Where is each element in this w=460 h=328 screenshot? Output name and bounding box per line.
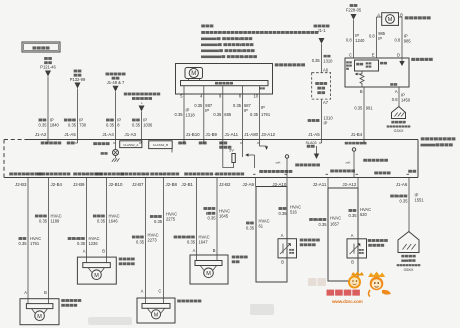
CLASS2_A box xyxy=(120,141,142,148)
label CKT 985a xyxy=(369,31,386,41)
svg-text:J2-B1: J2-B1 xyxy=(182,182,194,187)
svg-text:C: C xyxy=(158,289,161,294)
rear linear power module xyxy=(345,53,433,88)
svg-text:1551: 1551 xyxy=(415,197,425,202)
right heater thermistor xyxy=(347,233,388,281)
svg-text:0.8: 0.8 xyxy=(346,38,352,43)
svg-text:J1-B10: J1-B10 xyxy=(186,132,200,137)
wire to IP electrical center A6 xyxy=(321,44,323,73)
svg-text:0.35: 0.35 xyxy=(175,112,184,117)
wire pin A to ground xyxy=(398,87,400,107)
label CKT 1645 xyxy=(203,207,230,221)
fuse F228-05 xyxy=(346,4,362,20)
svg-text:516: 516 xyxy=(290,209,298,214)
svg-text:J1-B9: J1-B9 xyxy=(206,132,218,137)
svg-text:10: 10 xyxy=(253,94,258,99)
svg-text:CLASS2_B: CLASS2_B xyxy=(153,143,168,147)
svg-text:0.35: 0.35 xyxy=(132,122,141,127)
svg-text:P121-46: P121-46 xyxy=(40,64,56,69)
internal terminal right xyxy=(345,148,355,178)
wire actuator pin10 to J3-A12 xyxy=(259,86,261,143)
label CKT 1840 xyxy=(39,118,60,128)
svg-text:A: A xyxy=(83,249,86,254)
svg-text:1189: 1189 xyxy=(51,218,61,223)
label CKT 520 xyxy=(349,207,372,218)
label CKT 1646 xyxy=(93,214,120,224)
label CKT 2273 xyxy=(132,233,159,245)
svg-text:2275: 2275 xyxy=(166,216,176,221)
svg-text:A: A xyxy=(281,233,284,238)
mode actuator assembly box xyxy=(176,63,306,94)
wire J2-B9 pass motor feed xyxy=(86,178,88,263)
svg-text:M: M xyxy=(206,271,211,277)
svg-text:0.8: 0.8 xyxy=(392,97,398,102)
svg-text:J1-48 & 7: J1-48 & 7 xyxy=(107,80,125,85)
svg-text:J2-A12: J2-A12 xyxy=(342,182,356,187)
HVAC control module box xyxy=(4,137,455,177)
svg-text:J1-A11: J1-A11 xyxy=(225,132,239,137)
svg-text:1318: 1318 xyxy=(186,112,196,117)
wire J2-A12 xyxy=(357,178,359,240)
wire actuator pin8 to J1-A80 xyxy=(242,86,244,143)
svg-text:A7: A7 xyxy=(323,100,329,105)
label CKT 516 xyxy=(279,205,302,216)
svg-text:J2-B7: J2-B7 xyxy=(132,182,144,187)
label CKT 2275 xyxy=(150,212,177,224)
passenger temp motor assembly xyxy=(77,249,134,285)
wire J2-A11 xyxy=(327,178,329,189)
svg-text:0.35: 0.35 xyxy=(354,106,363,111)
svg-text:B: B xyxy=(102,249,105,254)
svg-text:CLASS2_A: CLASS2_A xyxy=(123,143,138,147)
svg-text:A: A xyxy=(24,290,27,295)
wire J1-A3 class2 xyxy=(141,112,143,144)
svg-text:IP: IP xyxy=(205,108,209,113)
hot-at-all-times header box xyxy=(22,42,60,52)
wire actuator pin4 to J1-B9 xyxy=(203,86,205,143)
svg-text:1036: 1036 xyxy=(143,122,153,127)
internal labels bottom row xyxy=(9,159,416,176)
actuator pins 5 4 9 8 10 xyxy=(180,94,258,99)
svg-text:1645: 1645 xyxy=(219,213,229,218)
top pin labels xyxy=(35,132,363,137)
svg-text:xxK: xxK xyxy=(275,161,280,165)
svg-text:C: C xyxy=(349,53,352,58)
svg-text:M: M xyxy=(388,17,393,23)
svg-text:0.35: 0.35 xyxy=(312,58,321,63)
wire pin B to J1-B4 xyxy=(363,87,365,143)
internal terminal left xyxy=(275,155,288,178)
svg-text:A: A xyxy=(193,248,196,253)
bottom pin labels xyxy=(15,182,408,187)
IP electrical center dashed box xyxy=(312,73,331,99)
svg-text:A: A xyxy=(351,233,354,238)
internal labels top row xyxy=(41,141,110,145)
svg-text:0.35: 0.35 xyxy=(213,112,222,117)
svg-text:M: M xyxy=(94,273,99,279)
svg-text:A6: A6 xyxy=(323,68,329,73)
svg-text:5V: 5V xyxy=(229,149,234,153)
svg-text:J2-B8: J2-B8 xyxy=(166,182,178,187)
svg-text:J1-A5: J1-A5 xyxy=(64,132,76,137)
wire fuse to linear module C xyxy=(353,20,355,58)
internal lamp symbol xyxy=(101,143,120,162)
svg-text:0.35: 0.35 xyxy=(208,216,217,221)
svg-text:1310: 1310 xyxy=(323,58,333,63)
fuse F2 P132-99 xyxy=(70,70,86,89)
wire actuator pin9 to J1-A11 xyxy=(222,86,224,143)
label CKT 1318 xyxy=(175,108,196,118)
svg-text:2273: 2273 xyxy=(148,237,158,242)
svg-text:J2-B3: J2-B3 xyxy=(15,182,27,187)
wire J1-A4 dimming xyxy=(115,92,117,143)
bottom pin ticks xyxy=(26,173,410,175)
linear module internals xyxy=(346,60,397,86)
svg-text:J1-A3: J1-A3 xyxy=(125,132,137,137)
wire actuator pin5 to J1-B10 xyxy=(183,86,185,143)
svg-text:0.35: 0.35 xyxy=(136,239,145,244)
svg-text:61: 61 xyxy=(259,223,264,228)
label CKT 987 xyxy=(194,103,213,113)
svg-text:A: A xyxy=(141,289,144,294)
svg-text:D: D xyxy=(397,53,400,58)
label CKT 687 xyxy=(233,103,252,113)
label CKT 1189 xyxy=(35,214,62,224)
note block wire color changes xyxy=(201,24,318,58)
svg-text:985: 985 xyxy=(404,38,412,43)
svg-text:0.35: 0.35 xyxy=(233,103,242,108)
label CKT 1647 xyxy=(174,235,210,245)
svg-text:SLA03: SLA03 xyxy=(306,141,317,145)
internal resistor xyxy=(355,71,364,87)
mode motor assembly xyxy=(137,289,201,324)
wire J2-B2 vent motor return xyxy=(216,178,218,261)
label CKT 1657 xyxy=(309,216,341,227)
rear blower motor xyxy=(377,13,431,26)
svg-text:www.dzsc.com: www.dzsc.com xyxy=(331,299,363,304)
ground G3XX xyxy=(387,107,411,134)
label CKT 1310b xyxy=(308,116,334,126)
watermark mascot monkey xyxy=(368,272,391,297)
svg-text:B: B xyxy=(351,260,354,265)
faint smudges xyxy=(88,304,274,325)
left heater housing box xyxy=(256,187,287,283)
svg-text:1647: 1647 xyxy=(199,239,209,244)
svg-text:M: M xyxy=(154,313,158,319)
internal ground arrow pin D xyxy=(399,58,404,66)
svg-text:0.35: 0.35 xyxy=(319,222,328,227)
actuator resistor strip xyxy=(181,81,269,90)
svg-text:J2-B2: J2-B2 xyxy=(219,182,231,187)
wire J2-B4 driver motor return xyxy=(48,178,50,304)
svg-text:0.35: 0.35 xyxy=(250,112,259,117)
svg-text:J1-A2: J1-A2 xyxy=(35,132,47,137)
svg-text:M: M xyxy=(37,314,42,320)
internal SLA03 label xyxy=(306,141,317,148)
svg-text:xxK: xxK xyxy=(345,161,350,165)
svg-text:IP: IP xyxy=(324,120,328,125)
svg-text:1791: 1791 xyxy=(261,112,271,117)
svg-text:E: E xyxy=(372,53,375,58)
svg-text:0.35: 0.35 xyxy=(349,213,358,218)
internal rear blower label xyxy=(345,142,348,145)
svg-text:0.35: 0.35 xyxy=(97,218,106,223)
svg-text:0.35: 0.35 xyxy=(400,198,409,203)
wire J2-B1 vent motor feed xyxy=(196,178,198,261)
svg-text:J3-A12: J3-A12 xyxy=(261,132,275,137)
svg-text:HVAC: HVAC xyxy=(330,216,341,221)
wire blower B to pin D xyxy=(401,17,403,58)
svg-text:J1-1: J1-1 xyxy=(318,28,327,33)
wire J2-B7 mode motor feed xyxy=(145,178,147,304)
wire J2-A9 xyxy=(255,178,257,187)
svg-text:0.35: 0.35 xyxy=(68,122,77,127)
ground G5XX connector xyxy=(397,232,421,272)
svg-text:0.8: 0.8 xyxy=(394,38,400,43)
vent motor assembly xyxy=(190,248,248,284)
internal 5V pullup xyxy=(223,143,235,168)
svg-text:1240: 1240 xyxy=(355,38,365,43)
internal mode labels xyxy=(178,141,231,148)
svg-text:1791: 1791 xyxy=(30,241,40,246)
label CKT 61 xyxy=(246,219,270,231)
svg-text:IP: IP xyxy=(378,36,382,41)
svg-text:J1-A80: J1-A80 xyxy=(244,132,258,137)
wire J2-B8 mode motor return xyxy=(163,178,165,304)
wire J2-A10 xyxy=(286,178,288,239)
CLASS2_B box xyxy=(149,141,173,153)
internal down arrow left xyxy=(314,146,319,159)
svg-text:0.35: 0.35 xyxy=(279,211,288,216)
label CKT 1791 xyxy=(19,236,42,246)
wire J1-A6 ground xyxy=(408,178,410,233)
fuse F3 instrument panel lamps xyxy=(106,73,126,92)
right heater housing box xyxy=(328,188,358,281)
svg-text:M: M xyxy=(191,71,196,77)
fuse F1 P121-46 xyxy=(40,57,56,76)
svg-text:1450: 1450 xyxy=(401,97,411,102)
svg-text:B: B xyxy=(44,290,47,295)
label CKT 1236 xyxy=(68,236,100,246)
label CKT 1551 xyxy=(390,193,424,204)
svg-text:0.35: 0.35 xyxy=(106,122,115,127)
svg-text:0.35: 0.35 xyxy=(19,241,28,246)
label CKT 1310a xyxy=(312,55,333,63)
actuator motor M xyxy=(185,68,203,81)
watermark ghost text xyxy=(308,278,326,286)
label CKT 991 xyxy=(354,106,373,111)
svg-text:0.35: 0.35 xyxy=(39,122,48,127)
label CKT 1036 xyxy=(132,118,153,128)
svg-text:0.35: 0.35 xyxy=(246,225,255,230)
svg-text:1236: 1236 xyxy=(89,241,99,246)
driver temp motor assembly xyxy=(20,290,81,325)
svg-text:P132-99: P132-99 xyxy=(70,77,86,82)
rear side frame J1-1 xyxy=(314,25,330,44)
label CKT 730 xyxy=(64,118,87,128)
wire J2-B10 pass motor return xyxy=(106,178,108,263)
watermark mascot coin xyxy=(348,271,364,288)
watermark text xyxy=(327,290,335,296)
label CKT 1791a xyxy=(250,105,271,117)
svg-text:1840: 1840 xyxy=(50,122,60,127)
svg-text:0.35: 0.35 xyxy=(154,219,163,224)
label CKT 8 xyxy=(106,118,121,128)
internal hook J3-A12 xyxy=(260,143,269,150)
svg-text:B: B xyxy=(360,89,363,94)
svg-text:J2-B4: J2-B4 xyxy=(51,182,63,187)
label CKT 685 xyxy=(213,112,232,117)
svg-text:730: 730 xyxy=(79,122,87,127)
svg-text:G3XX: G3XX xyxy=(394,129,404,133)
wire J1-A2 battery feed xyxy=(47,77,49,144)
svg-text:0.8: 0.8 xyxy=(369,34,375,39)
svg-text:IP: IP xyxy=(244,108,248,113)
serial data link connector xyxy=(124,93,160,112)
svg-text:B: B xyxy=(213,248,216,253)
wire blower A to pin E xyxy=(376,17,378,58)
svg-text:520: 520 xyxy=(360,212,368,217)
svg-text:1657: 1657 xyxy=(330,222,340,227)
svg-text:1646: 1646 xyxy=(109,218,119,223)
svg-text:F228-05: F228-05 xyxy=(346,8,362,13)
top pin ticks xyxy=(46,142,365,144)
wire A7 to J1-A5b xyxy=(321,99,323,143)
svg-text:0.35: 0.35 xyxy=(39,218,48,223)
svg-text:J1-A4: J1-A4 xyxy=(102,132,114,137)
svg-text:G5XX: G5XX xyxy=(404,268,414,272)
svg-text:B: B xyxy=(281,260,284,265)
svg-text:0.35: 0.35 xyxy=(194,103,203,108)
svg-text:J1-B4: J1-B4 xyxy=(351,132,363,137)
svg-text:0.35: 0.35 xyxy=(187,239,196,244)
label CKT 1240 xyxy=(346,33,365,43)
svg-text:J1-A6: J1-A6 xyxy=(396,182,408,187)
svg-text:0.35: 0.35 xyxy=(77,241,86,246)
internal hook J1-A80 xyxy=(243,143,255,168)
svg-text:J1-A5: J1-A5 xyxy=(308,132,320,137)
wire J2-B3 driver motor feed xyxy=(27,178,29,304)
svg-text:IP: IP xyxy=(261,105,265,110)
svg-text:J2-B10: J2-B10 xyxy=(109,182,123,187)
label CKT 985b xyxy=(394,34,411,44)
svg-text:991: 991 xyxy=(366,106,374,111)
svg-text:J2-A9: J2-A9 xyxy=(243,182,255,187)
svg-text:685: 685 xyxy=(224,112,232,117)
left heater thermistor xyxy=(278,233,320,282)
svg-text:J2-A11: J2-A11 xyxy=(313,182,327,187)
label CKT 1450 xyxy=(392,93,411,103)
svg-text:J2-B9: J2-B9 xyxy=(73,182,85,187)
wire J1-A5 ignition xyxy=(77,89,79,144)
svg-text:A: A xyxy=(395,89,398,94)
